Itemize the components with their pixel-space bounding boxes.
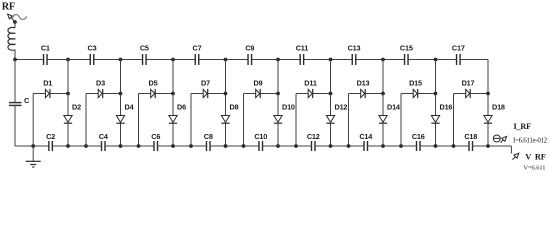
wire top bus seg4 — [94, 59, 121, 61]
svg-text:C9: C9 — [245, 44, 254, 53]
junction bottom node anode-drop 4 — [189, 144, 193, 148]
svg-text:C4: C4 — [99, 132, 109, 141]
wire top-to-middle drop at X6 — [330, 60, 332, 94]
junction bottom node B7 — [381, 144, 385, 148]
svg-text:C12: C12 — [307, 132, 320, 141]
junction bottom node B5 — [276, 144, 280, 148]
wire top bus seg8 — [199, 59, 226, 61]
junction middle node J1 — [66, 92, 70, 96]
wire bottom bus seg14 — [244, 145, 260, 147]
junction top node T4 — [224, 58, 228, 62]
junction bottom node B3 — [171, 144, 175, 148]
capacitor C3 — [88, 44, 97, 65]
wire bottom bus seg26 — [454, 145, 470, 147]
svg-text:C18: C18 — [464, 132, 477, 141]
wire bottom bus seg22 — [383, 145, 401, 147]
wire output corner — [510, 146, 512, 154]
wire top bus seg10 — [252, 59, 278, 61]
svg-text:C11: C11 — [296, 44, 309, 53]
diode D17 — [454, 79, 489, 99]
svg-text:D15: D15 — [409, 79, 422, 88]
svg-text:C5: C5 — [140, 44, 149, 53]
wire bottom bus seg9 — [158, 145, 174, 147]
wire top-to-middle drop at X1 — [67, 60, 69, 94]
diode D1 — [33, 79, 68, 99]
junction bottom node anode-drop 7 — [347, 144, 351, 148]
current probe I_RF symbol — [493, 135, 500, 142]
junction middle node J7 — [381, 92, 385, 96]
diode D9 — [244, 79, 279, 99]
wire bottom bus seg15 — [263, 145, 279, 147]
inductor L1 — [8, 22, 16, 60]
diode D6 — [169, 94, 186, 147]
svg-text:D18: D18 — [492, 103, 505, 112]
junction top node T7 — [381, 58, 385, 62]
wire anode drop for D7 — [190, 94, 192, 147]
capacitor C15 — [400, 44, 413, 65]
wire top bus seg5 — [121, 59, 143, 61]
wire bottom bus seg6 — [105, 145, 121, 147]
wire anode drop for D5 — [138, 94, 140, 147]
diode D13 — [349, 79, 384, 99]
wire top bus seg15 — [383, 59, 405, 61]
junction bottom node B4 — [224, 144, 228, 148]
wire top bus seg11 — [278, 59, 300, 61]
wire top bus seg9 — [226, 59, 249, 61]
diode D12 — [326, 94, 347, 147]
capacitor C6 — [151, 132, 160, 151]
wire top-to-middle drop at X2 — [120, 60, 122, 94]
wire bottom bus seg8 — [139, 145, 155, 147]
diode D7 — [191, 79, 226, 99]
junction bottom node anode-drop 6 — [294, 144, 298, 148]
svg-text:C7: C7 — [193, 44, 202, 53]
capacitor C14 — [359, 132, 373, 151]
junction middle node J4 — [224, 92, 228, 96]
junction middle node J3 — [171, 92, 175, 96]
wire anode drop for D11 — [295, 94, 297, 147]
svg-text:D3: D3 — [96, 79, 105, 88]
wire bottom bus seg7 — [121, 145, 139, 147]
capacitor C7 — [193, 44, 202, 65]
junction top node T5 — [276, 58, 280, 62]
junction bottom node anode-drop 9 — [452, 144, 456, 148]
svg-text:C8: C8 — [204, 132, 213, 141]
wire bottom bus seg12 — [210, 145, 226, 147]
wire bottom bus seg3 — [52, 145, 68, 147]
svg-text:C16: C16 — [412, 132, 425, 141]
svg-text:D17: D17 — [462, 79, 475, 88]
junction middle node J2 — [119, 92, 123, 96]
value label V=6.611 — [523, 164, 545, 171]
capacitor C5 — [140, 44, 149, 65]
wire top bus seg3 — [68, 59, 90, 61]
junction bottom node B2 — [119, 144, 123, 148]
wire top bus seg14 — [356, 59, 383, 61]
svg-text:I_RF: I_RF — [514, 122, 532, 131]
wire top-to-middle drop at X4 — [225, 60, 227, 94]
svg-text:D1: D1 — [43, 79, 52, 88]
wire top bus seg16 — [408, 59, 435, 61]
junction top node T2 — [119, 58, 123, 62]
wire top bus seg6 — [146, 59, 173, 61]
wire bottom bus seg25 — [436, 145, 454, 147]
junction bottom node anode-drop 5 — [242, 144, 246, 148]
wire bottom bus seg4 — [68, 145, 86, 147]
diode D10 — [274, 94, 295, 147]
junction top node T1 — [66, 58, 70, 62]
wire top-to-middle drop at X3 — [172, 60, 174, 94]
svg-text:C3: C3 — [88, 44, 97, 53]
junction middle node J6 — [329, 92, 333, 96]
junction bottom node anode-drop 8 — [399, 144, 403, 148]
svg-text:C10: C10 — [254, 132, 267, 141]
wire bottom bus seg10 — [173, 145, 191, 147]
capacitor C12 — [307, 132, 320, 151]
svg-text:D11: D11 — [304, 79, 317, 88]
junction port node — [13, 20, 17, 24]
junction bottom node anode-drop 3 — [137, 144, 141, 148]
wire bottom bus seg27 — [473, 145, 489, 147]
svg-text:C: C — [24, 96, 30, 105]
svg-text:V: V — [525, 152, 531, 161]
svg-text:D2: D2 — [72, 103, 81, 112]
wire bottom bus seg24 — [420, 145, 436, 147]
svg-text:D10: D10 — [282, 103, 295, 112]
svg-text:D9: D9 — [254, 79, 263, 88]
svg-text:C14: C14 — [359, 132, 373, 141]
svg-text:C2: C2 — [46, 132, 55, 141]
junction middle node J8 — [434, 92, 438, 96]
svg-text:D7: D7 — [201, 79, 210, 88]
wire bottom bus seg19 — [331, 145, 349, 147]
wire bottom bus seg16 — [278, 145, 296, 147]
capacitor C17 — [452, 44, 465, 65]
capacitor C10 — [254, 132, 267, 151]
svg-text:C15: C15 — [400, 44, 413, 53]
wire anode drop for D17 — [453, 94, 455, 147]
current probe arrow — [501, 136, 507, 142]
svg-text:V=6.611: V=6.611 — [523, 164, 545, 171]
diode D8 — [221, 94, 238, 147]
wire top bus seg2 — [47, 59, 68, 61]
diode D5 — [139, 79, 174, 99]
svg-text:D13: D13 — [357, 79, 370, 88]
wire bottom bus seg17 — [296, 145, 312, 147]
svg-text:C6: C6 — [151, 132, 160, 141]
diode D18 — [484, 94, 505, 147]
capacitor C8 — [204, 132, 213, 151]
wire top bus seg17 — [436, 59, 457, 61]
svg-text:D16: D16 — [440, 103, 453, 112]
svg-text:C13: C13 — [348, 44, 361, 53]
svg-text:C17: C17 — [452, 44, 465, 53]
capacitor C16 — [412, 132, 425, 151]
ground — [26, 146, 41, 167]
junction top node T3 — [171, 58, 175, 62]
wire top bus seg1 — [15, 59, 44, 61]
junction input node — [13, 58, 17, 62]
diode D3 — [86, 79, 121, 99]
label V RF — [525, 152, 545, 161]
wire input column lower — [14, 105, 16, 146]
diode D16 — [431, 94, 452, 147]
diode D14 — [379, 94, 401, 147]
value label I=6.611e-012 — [513, 136, 548, 144]
diode D11 — [296, 79, 331, 99]
junction bottom node B6 — [329, 144, 333, 148]
wire bottom bus seg28 — [488, 145, 511, 147]
wire bottom bus seg1 — [15, 145, 33, 147]
junction bottom node B1 — [66, 144, 70, 148]
capacitor C9 — [245, 44, 254, 65]
voltage probe arrow — [512, 153, 518, 160]
junction top node T8 — [434, 58, 438, 62]
wire top bus right end drop — [487, 60, 489, 94]
svg-text:C1: C1 — [41, 44, 50, 53]
junction middle node J9 — [486, 92, 490, 96]
wire bottom bus seg2 — [33, 145, 49, 147]
wire top bus seg18 — [460, 59, 488, 61]
junction bottom node anode-drop 1 — [31, 144, 35, 148]
svg-text:D12: D12 — [335, 103, 348, 112]
RF input probe arrow — [8, 14, 15, 22]
wire bottom bus seg18 — [315, 145, 331, 147]
diode D15 — [401, 79, 436, 99]
capacitor C18 — [464, 132, 477, 151]
junction top node T6 — [329, 58, 333, 62]
wire top bus seg12 — [304, 59, 331, 61]
wire bottom bus seg5 — [86, 145, 102, 147]
wire anode drop for D15 — [400, 94, 402, 147]
diode D2 — [64, 94, 81, 147]
node RF label — [2, 1, 15, 12]
wire bottom bus seg20 — [349, 145, 365, 147]
wire anode drop for D1 — [32, 94, 34, 147]
wire top-to-middle drop at X7 — [382, 60, 384, 94]
wire anode drop for D3 — [85, 94, 87, 147]
svg-text:D5: D5 — [149, 79, 158, 88]
capacitor C1 — [41, 44, 50, 65]
wire top-to-middle drop at X5 — [277, 60, 279, 94]
wire input column upper — [14, 60, 16, 103]
svg-text:D6: D6 — [177, 103, 186, 112]
wire bottom bus seg23 — [401, 145, 417, 147]
wire bottom bus seg13 — [226, 145, 244, 147]
junction bottom node B9 — [486, 144, 490, 148]
wire anode drop for D13 — [348, 94, 350, 147]
svg-text:D8: D8 — [230, 103, 239, 112]
wire top bus seg7 — [173, 59, 195, 61]
capacitor C2 — [46, 132, 55, 151]
diode D4 — [116, 94, 134, 147]
svg-text:RF: RF — [2, 1, 15, 12]
wire bottom bus seg11 — [191, 145, 207, 147]
capacitor C13 — [348, 44, 361, 65]
junction middle node J5 — [276, 92, 280, 96]
wire top bus seg13 — [331, 59, 353, 61]
sine wave symbol — [13, 15, 27, 20]
svg-text:RF: RF — [535, 152, 546, 161]
junction bottom node anode-drop 2 — [84, 144, 88, 148]
capacitor C — [9, 96, 30, 105]
capacitor C4 — [99, 132, 109, 151]
junction bottom node B8 — [434, 144, 438, 148]
capacitor C11 — [296, 44, 309, 65]
label I_RF — [514, 122, 532, 131]
wire bottom bus seg21 — [368, 145, 384, 147]
svg-text:I=6.611e-012: I=6.611e-012 — [513, 136, 548, 144]
svg-text:D4: D4 — [125, 103, 135, 112]
svg-text:D14: D14 — [387, 103, 401, 112]
wire anode drop for D9 — [243, 94, 245, 147]
wire top-to-middle drop at X8 — [435, 60, 437, 94]
